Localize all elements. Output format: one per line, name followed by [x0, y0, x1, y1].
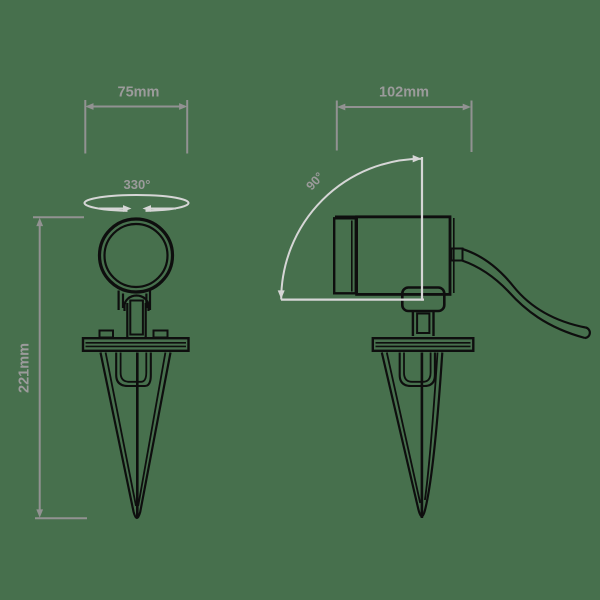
90deg axis vertical line: [421, 157, 423, 301]
U-bracket below flange (front view): [116, 353, 151, 387]
dimension 75mm line: [85, 100, 187, 154]
spike inner edges (side view): [387, 353, 420, 504]
stem (front view): [127, 301, 145, 338]
dimension 102mm line: [337, 101, 472, 153]
svg-text:330°: 330°: [124, 177, 151, 192]
flange plate (side view): [373, 338, 474, 351]
spotlight head (front view) inner circle: [105, 224, 168, 287]
cable upper edge: [462, 249, 586, 328]
rotation ellipse 330deg: [85, 195, 189, 211]
pivot bracket (side view): [402, 288, 444, 312]
flange tabs (front view): [100, 331, 114, 338]
spike outer edges (front view): [101, 353, 171, 519]
lens bezel (side view): [334, 218, 356, 293]
neck (side view): [413, 311, 434, 336]
cable end cap: [585, 328, 590, 339]
cable lower edge: [462, 261, 585, 339]
U-bracket below flange (side view): [400, 353, 435, 387]
flange plate (front view): [83, 338, 189, 351]
rotation arrows: [99, 205, 176, 212]
svg-text:221mm: 221mm: [17, 343, 33, 393]
90deg arc arrows: [278, 155, 422, 299]
yoke arms (front view): [119, 291, 150, 311]
svg-text:102mm: 102mm: [379, 84, 429, 100]
spike centre rib (front view): [136, 353, 139, 519]
cable gland (side view): [452, 249, 463, 261]
spike inner edges (front view): [106, 353, 136, 507]
spotlight head (front view) outer circle: [100, 219, 173, 292]
svg-text:75mm: 75mm: [118, 84, 160, 100]
body top line (side view): [335, 216, 451, 219]
spike centre rib (side view): [421, 353, 424, 519]
rear cap line (side view): [453, 218, 455, 293]
main body (side view): [357, 217, 450, 295]
90deg axis horizontal line: [281, 299, 424, 301]
90deg arc: [281, 159, 422, 300]
spike outer edges (side view): [382, 353, 443, 517]
dimension 221mm line: [33, 217, 87, 518]
stem arch (front view): [125, 296, 149, 312]
